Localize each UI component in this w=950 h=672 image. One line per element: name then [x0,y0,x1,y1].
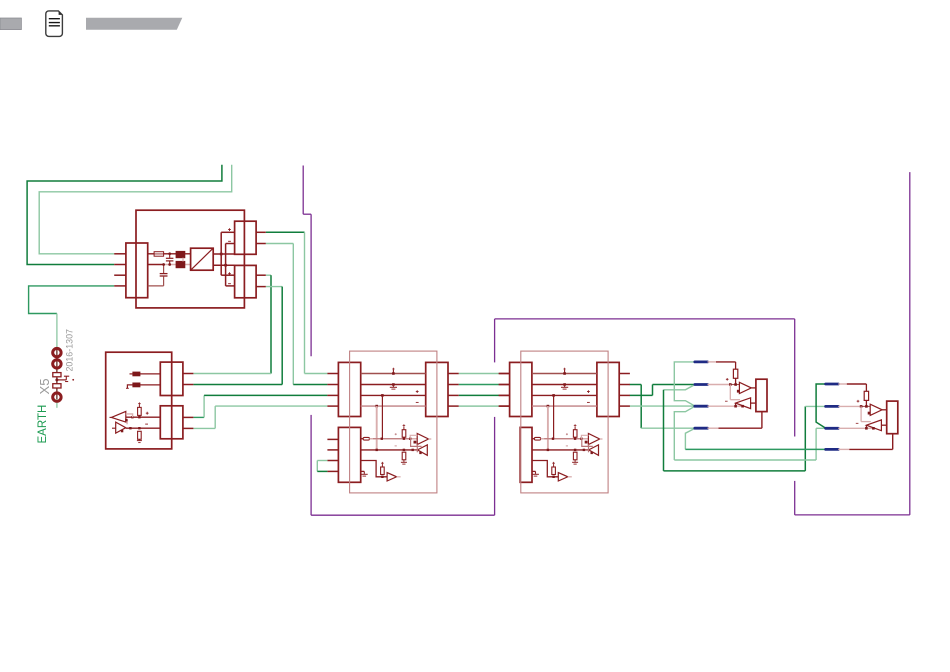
PSU upper connector output pins [256,231,266,233]
aux pull resistor [381,467,385,475]
polarity labels lower connector [228,272,231,275]
lower connector pin4 ground [532,470,536,472]
wire converter output + [213,253,234,255]
bus line4 junction to lower circuit pale [375,405,378,408]
receiver module 1 op-amp receiver U3B (left facing) [736,398,751,409]
polarity labels upper connector [228,228,231,231]
receiver module 2 cable segment 3 (navy) [826,427,839,430]
document icon [46,11,63,37]
wire net R2 PSU upper pin2 to repeater1 pin2 [266,243,294,245]
TX feedback wiring pale [126,414,133,424]
wire EARTH vertical through X5 component chain [56,314,58,408]
aux channel wire from lower connector pin3 [361,461,387,477]
receiver module 1 feedback pale wiring [730,385,744,408]
TX upper connector [160,362,183,395]
repeater bus wires [532,373,597,375]
PSU output connector upper [235,221,257,254]
wire net T4 TX lower pin2 to repeater1 pin4 [193,427,215,429]
PSU input pins [114,253,126,255]
junction node on X5 chain [55,378,58,381]
purple group boundary polyline segments [302,166,304,215]
svg-text:2016-1307: 2016-1307 [65,329,75,372]
choke bead L1 [176,251,185,257]
wire net A module1 seg1 to seg3 loop [674,362,695,406]
wire bead1 to converter [185,253,191,255]
aux channel wire from lower connector pin3 [532,461,558,477]
PSU module outline box [136,210,244,308]
TX driver op-amp A1 (left facing) [111,411,125,422]
receiver module 1 cable segment 2 (navy) [695,383,708,386]
wire line1 psu input [148,253,155,255]
PSU output connector lower [235,265,257,297]
wire net B module1 seg2 to module2 seg2 long link [664,385,695,390]
PSU lower connector output pins [256,274,266,276]
termination resistor upper [573,430,577,438]
receiver module 2 output connector [887,401,898,434]
repeater block at x offset 0.0: left connector [338,362,360,416]
choke core link [182,258,184,262]
receiver module 2 + junction [861,405,870,407]
earth ground symbol branch [57,376,74,381]
wire net R4 PSU lower pin2 to TX pin2 [266,286,282,288]
termination resistor upper [402,430,406,438]
wire net P3 rep2 pin3 crossover to module seg2 [630,394,653,396]
wire net E module2 seg1 to seg3 loop [816,384,826,428]
choke bead L3 [133,372,140,376]
loopback U wire pins3-4 [317,460,327,462]
wire net EARTH from PSU connector X pin4 down to X5 chain [29,286,115,314]
receive wire1 with series resistor pill [361,438,363,440]
bus line2 tap with ground [392,383,395,386]
receiver module 1 + junction [730,384,739,386]
X5 chain connecting wire (dark red) [56,349,58,399]
repeater block at x offset 171.2: left connector [510,362,532,416]
wire net T3 TX lower pin1 to repeater1 pin3 [193,416,204,418]
choke bead L4 [133,383,140,387]
ferrite bead ring 1 of X5 chain [53,348,61,356]
page header slanted gray bar (decorative) [86,18,182,30]
receive wire2 [532,449,584,451]
wire net R3 PSU lower pin1 to TX pin1 [266,274,271,276]
bus line2 tap with ground [563,383,566,386]
repeater comparator op-amp U2B [418,445,428,455]
TX lower connector [160,406,183,439]
bus line3 junction to lower circuit [552,394,555,397]
receive wire2 [361,449,413,451]
wire converter output - [213,264,234,266]
bus line3 junction to lower circuit [381,394,384,397]
repeater right connector [426,362,448,416]
bus line1 tap symbol [392,370,394,374]
wire line2 psu input pale [148,264,164,266]
receiver module 2 op-amp receiver U3B (left facing) [866,420,881,431]
wire net R1 PSU upper pin1 to repeater1 pin1 [266,231,305,233]
resistor R in X5 chain (upper) [53,373,61,377]
receiver module 1 top wire to resistor [716,361,736,363]
repeater bus wires [361,373,426,375]
receiver module 1 input resistor [733,369,737,378]
termination resistor lower with ground [573,452,577,460]
receiver module 2 top wire to resistor [847,383,867,385]
TX module outline box [106,352,172,449]
receiver module 1 cable segment 3 (navy) [695,405,708,408]
DC/DC converter U1 [191,248,214,270]
ferrite bead ring 3 of X5 chain [53,393,61,401]
resistor R in X5 chain (lower) [53,384,61,388]
TX wire out+ inside [126,416,161,418]
repeater polarity labels [587,390,590,393]
receiver module 1 pale stubs [708,361,717,363]
capacitor C2 to return [148,263,168,286]
feedback pale links [566,433,593,454]
aux pull resistor [552,467,556,475]
receiver module 2 return wire to segment 4 [892,434,894,450]
lower connector left pins [327,438,338,440]
wire + distribution vertical [220,232,222,275]
receiver module 1 cable segment 4 (navy) [695,427,708,430]
repeater right pins [448,373,459,375]
receiver module 1 return wire to segment 4 [761,412,763,429]
repeater outline box [521,351,608,493]
wire - distribution vertical [225,244,227,286]
repeater polarity labels [416,390,419,393]
ferrite bead ring 2 of X5 chain [53,360,61,368]
fuse F1 [154,252,164,257]
TX driver op-amp A2 (right facing) [116,422,126,433]
page header left gray bar (decorative) [0,18,21,30]
repeater comparator op-amp U2A [588,434,599,445]
TX bias resistor upper [138,407,142,415]
repeater lower connector [520,427,532,482]
receive wire1 with series resistor pill [532,438,534,440]
TX lower connector right pins [183,416,194,418]
receiver module 2 cable segment 4 (navy) [826,448,839,451]
receiver module 2 feedback pale wiring [861,406,875,429]
TX wire out- inside [126,427,161,429]
wire net P4 rep2 pin4 straight to module seg3 [630,405,695,407]
repeater comparator op-amp U2A [417,434,428,445]
choke bead L2 [176,261,185,267]
receiver module 2 input resistor [864,391,868,400]
TX polarity labels [146,412,149,415]
wire net L1 from PSU connector X pin1 loop to top [39,165,232,254]
TX feedback squares [125,419,127,421]
receiver module 2 cable segment 2 (navy) [826,405,839,408]
receiver module 2 cable segment 1 (navy) [826,383,839,386]
svg-text:EARTH: EARTH [37,405,49,444]
PSU input connector X (left) [126,243,148,298]
receiver module 1 op-amp receiver U3A [739,382,751,393]
bus line4 junction to lower circuit pale [547,405,550,408]
aux buffer gate [387,473,397,481]
repeater right connector [597,362,619,416]
repeater left pins [327,373,338,375]
TX upper connector right pins [183,373,194,375]
bus wires repeater1 to repeater2 [459,373,499,375]
receiver module 1 output connector [756,379,767,411]
termination resistor lower with ground [402,452,406,460]
wire net P2 rep2 pin2 crossover to module seg4 [630,384,642,386]
svg-text:X5: X5 [37,378,52,394]
receiver module 1 cable segment 1 (navy) [695,360,708,363]
capacitor C1 across lines [166,252,174,265]
receiver module 2 pale stubs [838,383,847,385]
repeater left pins [499,373,510,375]
repeater right pins [619,373,630,375]
repeater lower connector [338,427,360,482]
receiver module 2 op-amp receiver U3A [870,404,882,415]
wire net D module1 seg4 to module2 seg4 link [685,428,694,449]
wire net C module1 seg3 to module2 seg3 long link [674,406,695,460]
repeater comparator op-amp U2B [589,445,599,455]
aux buffer gate [558,473,568,481]
repeater outline box [350,351,437,493]
wire net L2 from PSU connector X pin2 loop to top [27,165,222,265]
feedback pale links [395,433,422,454]
lower connector pin4 ground [361,470,365,472]
TX bias resistor lower [138,431,142,439]
bus line1 tap symbol [564,370,566,374]
